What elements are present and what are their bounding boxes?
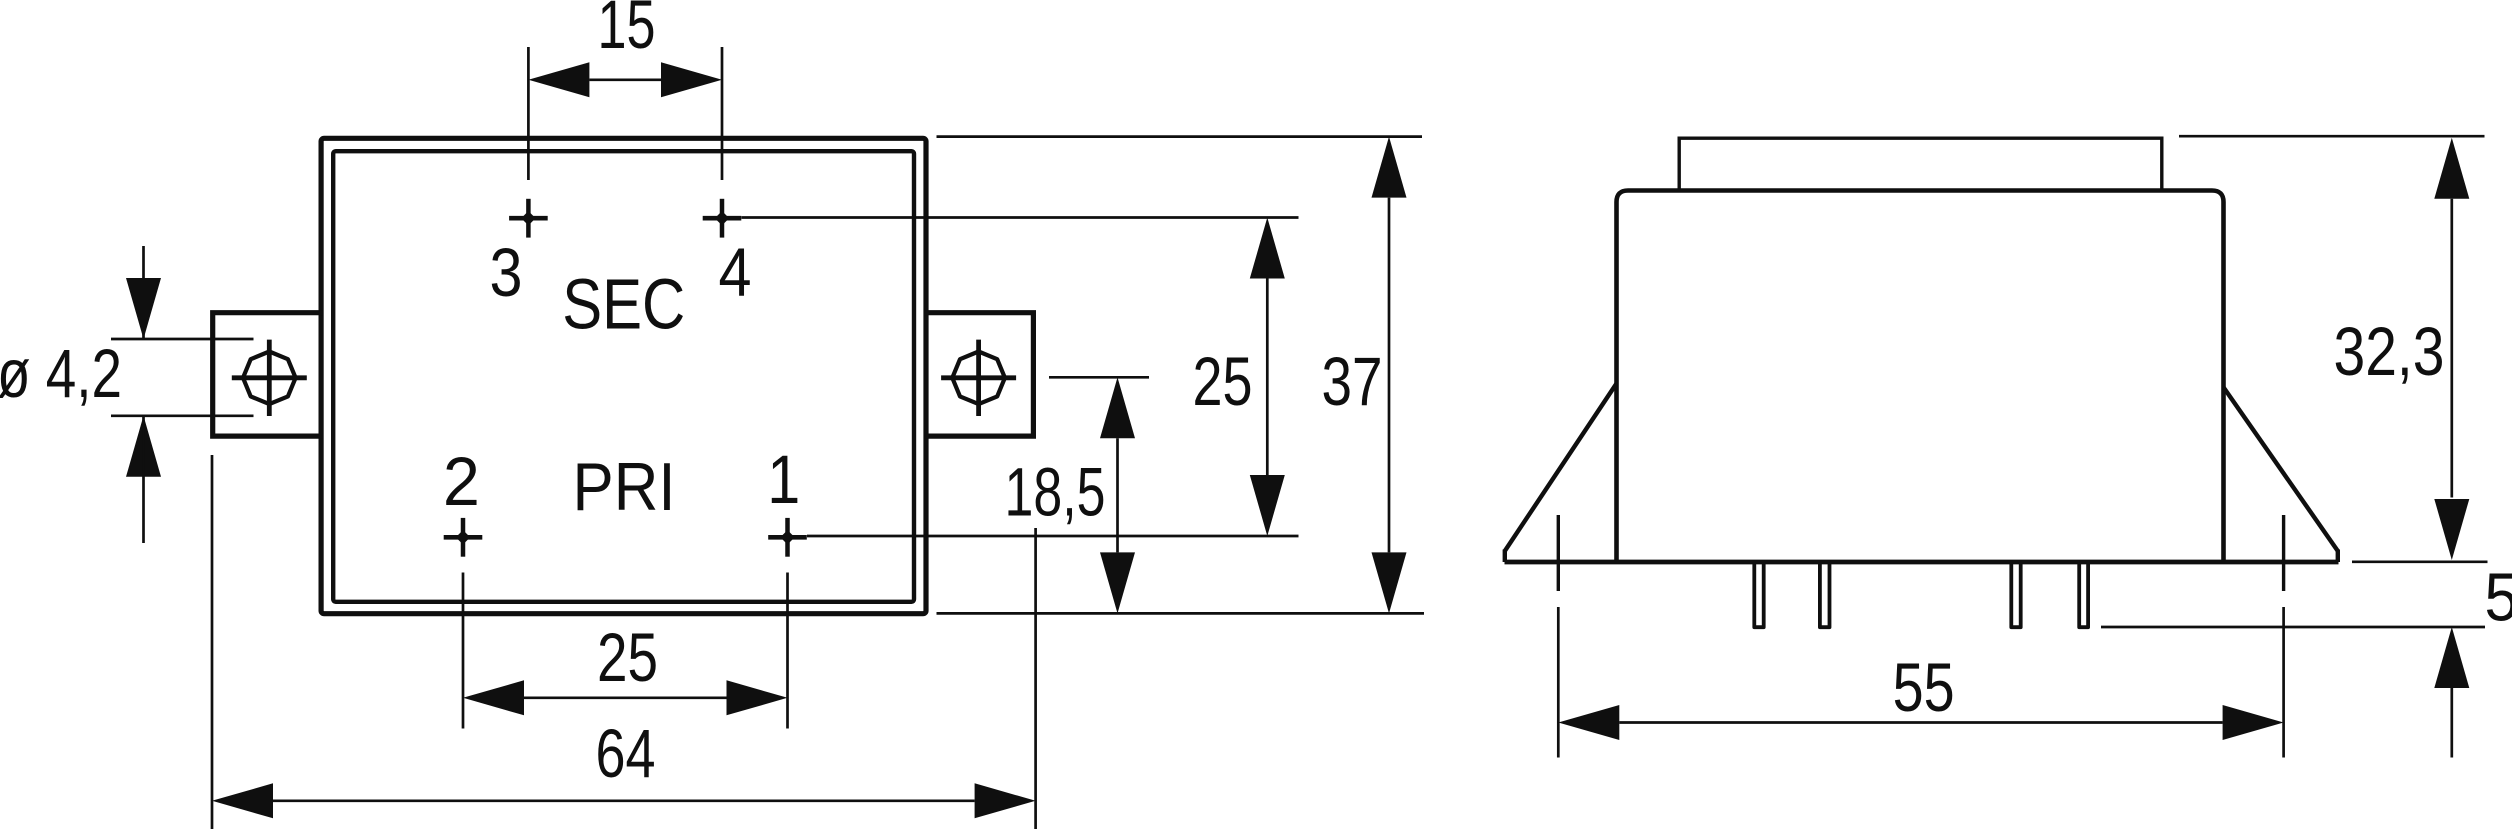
svg-text:PRI: PRI — [573, 450, 676, 525]
svg-text:25: 25 — [597, 619, 658, 696]
svg-text:3: 3 — [490, 234, 523, 311]
svg-text:37: 37 — [1322, 343, 1383, 420]
svg-text:ø 4,2: ø 4,2 — [0, 335, 122, 412]
svg-text:32,3: 32,3 — [2334, 313, 2445, 390]
svg-text:25: 25 — [1193, 343, 1253, 420]
svg-text:4: 4 — [719, 234, 752, 311]
svg-text:SEC: SEC — [562, 265, 685, 345]
svg-text:18,5: 18,5 — [1005, 454, 1106, 531]
svg-text:5: 5 — [2485, 560, 2512, 636]
svg-text:64: 64 — [596, 715, 656, 792]
svg-text:2: 2 — [443, 443, 480, 520]
svg-text:15: 15 — [598, 0, 656, 63]
svg-text:1: 1 — [767, 441, 800, 518]
svg-text:55: 55 — [1893, 649, 1955, 726]
